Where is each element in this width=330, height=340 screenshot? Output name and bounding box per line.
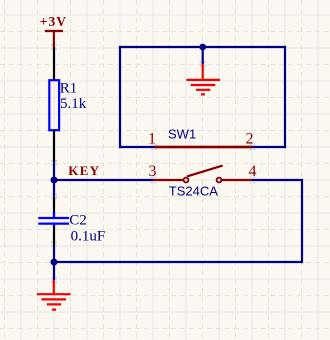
- svg-text:C2: C2: [69, 213, 87, 229]
- capacitor C2 pin 1: [53, 196, 55, 212]
- wire loop box left edge: [119, 46, 121, 148]
- switch SW1 right contact circle: [217, 178, 222, 183]
- switch SW1 pin 3: [154, 179, 184, 181]
- resistor R1 pin 2: [53, 130, 55, 162]
- svg-text:1: 1: [148, 131, 156, 148]
- resistor R1 body: [49, 80, 59, 130]
- wire loop box bottom edge: [119, 146, 286, 148]
- switch SW1 actuator bar: [188, 166, 222, 176]
- wire loop box right edge: [284, 46, 286, 148]
- wire loop box top edge: [119, 46, 286, 48]
- wire SW1 pin 4 to riser: [252, 179, 303, 181]
- power port +3V bar: [45, 31, 63, 48]
- switch SW1 pins 1-2 internal bar: [154, 146, 253, 148]
- svg-text:+3V: +3V: [40, 14, 67, 29]
- junction KEY node: [51, 177, 58, 184]
- svg-text:2: 2: [246, 131, 254, 148]
- ground symbol bottom left: [37, 280, 71, 310]
- wire bottom horizontal net: [54, 261, 302, 263]
- junction on box top edge: [199, 44, 206, 51]
- switch SW1 pin 4: [222, 179, 252, 181]
- svg-text:5.1k: 5.1k: [60, 96, 87, 112]
- svg-text:TS24CA: TS24CA: [169, 183, 218, 198]
- svg-text:KEY: KEY: [68, 163, 100, 178]
- pin connection grid markers: [52, 44, 256, 283]
- svg-text:R1: R1: [60, 80, 78, 96]
- ground symbol inside box: [186, 64, 220, 94]
- capacitor C2 bottom plate: [38, 224, 69, 227]
- capacitor C2 pin 2: [53, 227, 55, 246]
- junction at C2 bottom node: [51, 259, 58, 266]
- wire from R1 pin 2 to KEY junction: [53, 162, 55, 180]
- wire KEY horizontal to SW1 pin 3: [54, 179, 154, 181]
- svg-text:SW1: SW1: [168, 126, 196, 141]
- resistor R1 pin 1: [53, 47, 55, 80]
- wire right vertical riser: [301, 179, 303, 263]
- wire bottom junction to ground: [53, 262, 55, 280]
- wire KEY junction down to C2 pin 1: [53, 180, 55, 196]
- wire junction down to ground inside box: [202, 47, 204, 64]
- switch SW1 left contact circle: [184, 178, 189, 183]
- svg-text:3: 3: [149, 163, 157, 180]
- wire C2 pin 2 to bottom junction: [53, 246, 55, 263]
- capacitor C2 top plate: [38, 212, 69, 218]
- svg-text:0.1uF: 0.1uF: [71, 228, 106, 244]
- svg-text:4: 4: [249, 163, 257, 180]
